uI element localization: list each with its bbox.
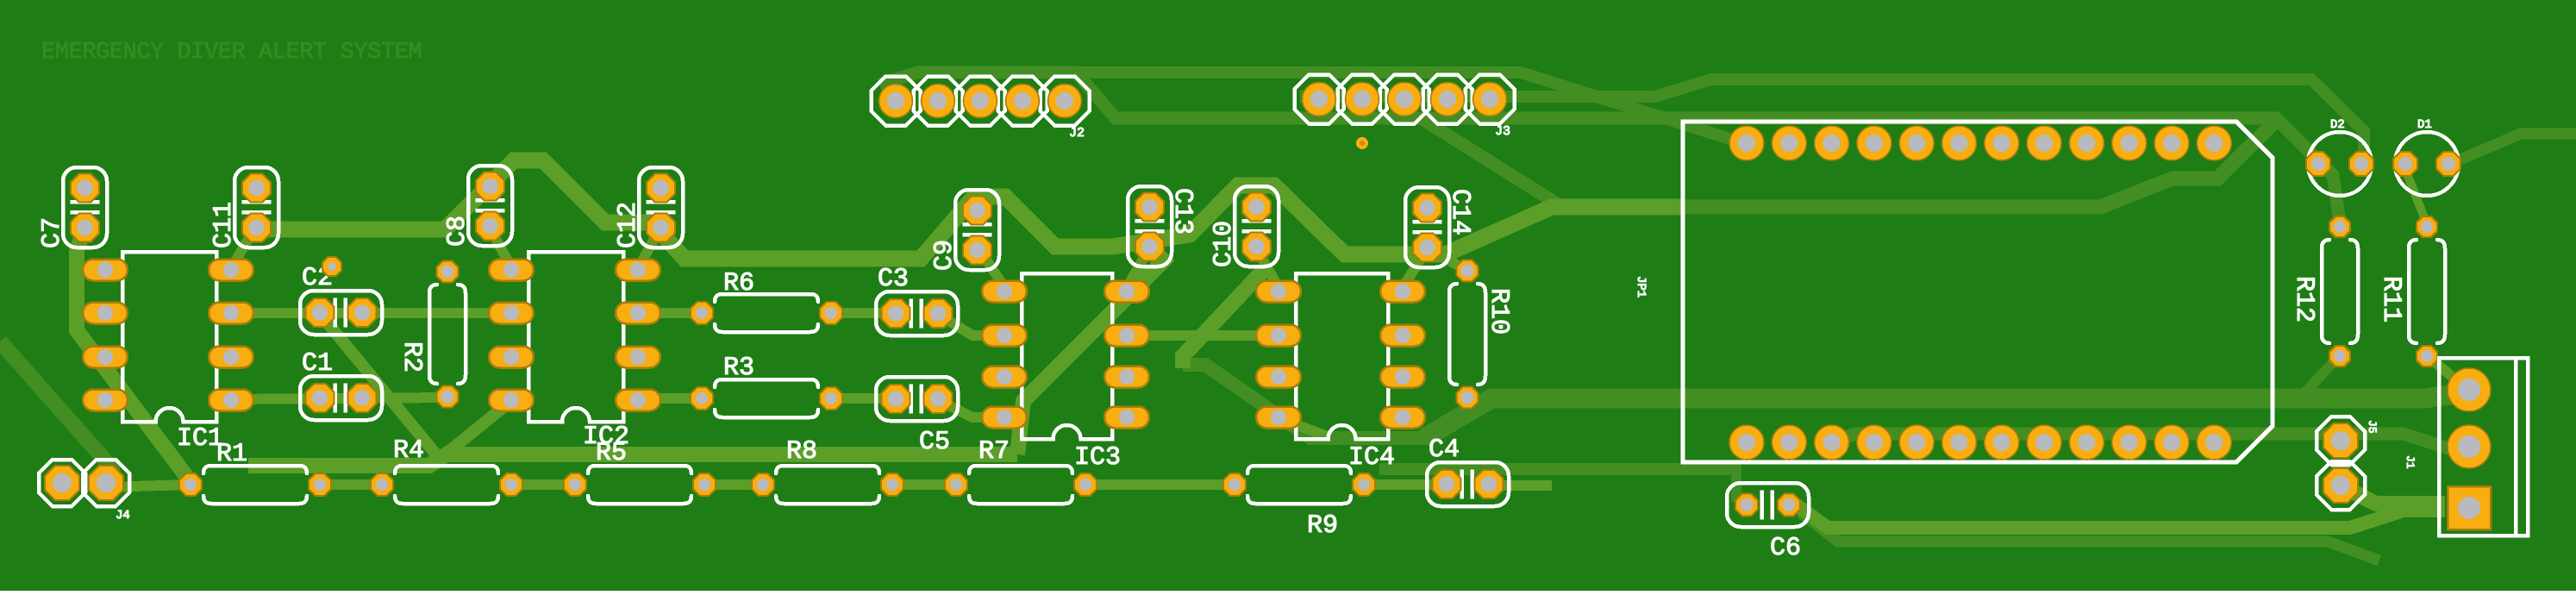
wire R8-R7	[892, 479, 956, 490]
pin 2	[2448, 425, 2491, 468]
svg-text:JP1: JP1	[1634, 276, 1648, 297]
svg-text:J1: J1	[2404, 455, 2417, 469]
pin 8	[1380, 281, 1425, 303]
pin 6	[1380, 366, 1425, 388]
wire net-B1-J1	[1831, 434, 2469, 448]
capacitor C13	[1128, 186, 1197, 266]
svg-text:C7: C7	[38, 217, 67, 248]
pin 6	[1104, 366, 1149, 388]
wire net-meander	[255, 160, 1685, 259]
pin 6	[209, 347, 253, 368]
wire IC1-C1-R2	[231, 398, 447, 399]
pin 5	[1104, 407, 1149, 429]
wire C14-IC4	[1404, 248, 1428, 285]
pin 1	[489, 260, 534, 281]
JP1 pin top 2	[1772, 126, 1806, 160]
resistor R12	[2289, 216, 2358, 366]
wire J5-J1	[2341, 485, 2445, 504]
pin 8	[616, 260, 660, 281]
wire net-C2-L1	[321, 315, 440, 459]
pin 1	[879, 85, 913, 118]
op-amp IC2 (DIP-8)	[489, 252, 660, 452]
svg-text:R8: R8	[786, 437, 817, 467]
pin 3	[1388, 83, 1422, 116]
wire R4-R5	[511, 479, 575, 490]
JP1 pin top 8	[2027, 126, 2061, 160]
pin 3	[1256, 366, 1301, 388]
pin 1	[83, 260, 128, 281]
wire R10-C14	[1433, 251, 1467, 271]
svg-text:C9: C9	[930, 240, 960, 271]
svg-text:R4: R4	[393, 436, 424, 466]
svg-text:C3: C3	[878, 265, 909, 294]
svg-text:C14: C14	[1445, 189, 1474, 235]
pin 7	[1380, 325, 1425, 347]
capacitor C5	[876, 377, 958, 457]
wire J4-R1	[105, 485, 191, 487]
wire C5-IC3	[936, 399, 1003, 417]
JP1 pin bottom 10	[2112, 425, 2147, 460]
JP1 pin bottom 7	[1985, 425, 2019, 460]
pin 2	[922, 85, 955, 118]
via	[1356, 137, 1368, 149]
wire R9-C4	[1364, 479, 1447, 490]
wire C13-IC3	[1129, 248, 1149, 285]
pin 1	[982, 281, 1027, 303]
wire R6-C3	[831, 308, 893, 318]
svg-text:C1: C1	[302, 349, 333, 379]
svg-text:IC4: IC4	[1348, 443, 1395, 473]
pin 2	[1256, 325, 1301, 347]
connector J1	[2404, 358, 2528, 535]
wire IC2-R3	[638, 393, 702, 404]
JP1 pin top 1	[1729, 126, 1764, 160]
wire R5-R8	[704, 479, 763, 490]
resistor R11	[2376, 216, 2445, 366]
capacitor C12	[614, 167, 683, 248]
resistor R7	[945, 437, 1097, 504]
pin 7	[1104, 325, 1149, 347]
wire net-J2-J3-R12	[879, 72, 2340, 222]
svg-text:IC1: IC1	[177, 424, 223, 454]
svg-text:EMERGENCY DIVER ALERT SYSTEM: EMERGENCY DIVER ALERT SYSTEM	[41, 40, 422, 66]
connector J4	[39, 460, 130, 523]
wire net-L1	[248, 454, 1017, 466]
resistor R1	[179, 440, 331, 504]
svg-text:C12: C12	[614, 202, 643, 248]
svg-text:C4: C4	[1429, 435, 1460, 465]
svg-text:IC2: IC2	[583, 423, 629, 452]
svg-text:C13: C13	[1167, 188, 1197, 235]
svg-text:J2: J2	[1069, 126, 1085, 141]
wire net-meander-inner	[1683, 121, 2276, 207]
svg-text:R6: R6	[723, 269, 754, 298]
wire net-R12-B0	[2303, 355, 2340, 395]
pin 8	[1104, 281, 1149, 303]
wire IC4-B0-stub	[1281, 419, 1328, 436]
JP1 pin top 11	[2154, 126, 2189, 160]
pin 2	[83, 303, 128, 324]
JP1 pin top 3	[1815, 126, 1849, 160]
svg-text:R11: R11	[2376, 276, 2405, 323]
pin 2	[489, 303, 534, 324]
wire net-L1-IC2	[440, 400, 512, 459]
pin 6	[616, 347, 660, 368]
connector J5	[2317, 416, 2379, 510]
pin 5	[209, 390, 253, 411]
wire C8-IC2	[490, 228, 510, 266]
pin 2	[982, 325, 1027, 347]
wire R11-D1	[2405, 169, 2427, 224]
resistor R9	[1223, 466, 1375, 541]
svg-text:C11: C11	[209, 202, 239, 248]
module JP1	[1634, 122, 2273, 462]
wire net-B0-J1	[1424, 392, 2469, 438]
pin 3	[982, 366, 1027, 388]
JP1 pin top 4	[1857, 126, 1891, 160]
pin 8	[209, 260, 253, 281]
resistor R2	[397, 261, 466, 408]
wire net-IC4-row	[1183, 365, 1431, 438]
capacitor C1	[300, 349, 382, 420]
svg-text:C10: C10	[1210, 221, 1239, 267]
wire net-B3b	[1800, 512, 2379, 561]
wire net-D1-edge	[2450, 134, 2576, 164]
pin 3	[964, 85, 997, 118]
wire net-J2-JP1pin1	[917, 72, 1743, 143]
pin 3	[489, 347, 534, 368]
JP1 pin bottom 6	[1942, 425, 1977, 460]
svg-text:D2: D2	[2330, 118, 2345, 132]
svg-text:C5: C5	[919, 428, 950, 457]
node pad near C2	[322, 257, 341, 276]
wire C12-IC2	[640, 228, 660, 266]
svg-text:IC3: IC3	[1074, 443, 1121, 473]
resistor R6	[691, 269, 842, 332]
wire IC2-R6	[638, 308, 702, 318]
capacitor C11	[209, 167, 278, 248]
op-amp IC1 (DIP-8)	[83, 252, 253, 454]
wire C9-IC3	[977, 246, 1003, 285]
svg-text:D1: D1	[2417, 118, 2432, 132]
pin 3	[83, 347, 128, 368]
pin 1	[1303, 83, 1336, 116]
svg-text:C6: C6	[1770, 534, 1801, 563]
svg-text:R3: R3	[723, 354, 754, 383]
wire R1-R4	[320, 479, 382, 490]
wire net-C7-R1	[77, 229, 191, 483]
JP1 pin bottom 9	[2069, 425, 2104, 460]
svg-text:J5: J5	[2366, 420, 2379, 434]
pin 2	[1346, 83, 1379, 116]
diode D1	[2393, 118, 2460, 196]
svg-text:J4: J4	[116, 509, 130, 523]
connector J2	[872, 77, 1090, 141]
wire R11-J1	[2427, 355, 2467, 390]
JP1 pin bottom 5	[1899, 425, 1934, 460]
pin 4	[83, 390, 128, 411]
pin 1	[1256, 281, 1301, 303]
JP1 pin top 9	[2069, 126, 2104, 160]
wire IC1-C2-IC2	[231, 308, 511, 318]
resistor R8	[752, 437, 903, 504]
svg-text:R9: R9	[1307, 511, 1338, 541]
wire C11-IC1	[234, 228, 255, 264]
capacitor C14	[1405, 187, 1474, 267]
JP1 pin bottom 12	[2197, 425, 2231, 460]
pin 4	[1431, 83, 1465, 116]
wire net-IC4-B0	[1183, 271, 1263, 368]
diode D2	[2306, 118, 2373, 196]
pin 4	[1006, 85, 1040, 118]
pin 5	[1048, 85, 1082, 118]
JP1 pin top 12	[2197, 126, 2231, 160]
JP1 pin bottom 8	[2027, 425, 2061, 460]
wire net-C13-L1	[1017, 255, 1169, 454]
wire net-J3-drop	[1421, 118, 1562, 207]
pin 5	[1473, 83, 1507, 116]
JP1 pin bottom 4	[1857, 425, 1891, 460]
capacitor C7	[38, 167, 107, 248]
JP1 pin top 6	[1942, 126, 1977, 160]
pin 4	[1256, 407, 1301, 429]
capacitor C3	[876, 265, 958, 335]
JP1 pin top 7	[1985, 126, 2019, 160]
wire R7-R9	[1085, 479, 1235, 490]
connector J3	[1295, 75, 1515, 140]
wire net-edge-J4	[0, 341, 112, 482]
resistor R3	[691, 354, 842, 417]
JP1 pin bottom 2	[1772, 425, 1806, 460]
wire R3-C5	[831, 393, 893, 404]
svg-text:J3: J3	[1495, 124, 1510, 139]
pin 7	[616, 303, 660, 324]
svg-text:R10: R10	[1484, 288, 1513, 335]
resistor R4	[371, 436, 522, 504]
wire net-L2	[1379, 463, 1735, 475]
capacitor C4	[1427, 435, 1509, 506]
svg-text:R2: R2	[397, 341, 426, 373]
op-amp IC3 (DIP-8)	[982, 273, 1149, 473]
capacitor C9	[930, 190, 999, 271]
JP1 pin bottom 3	[1815, 425, 1849, 460]
capacitor C10	[1210, 186, 1279, 267]
op-amp IC4 (DIP-8)	[1256, 273, 1425, 473]
resistor R10	[1449, 260, 1513, 409]
wire net-C6-J1	[1790, 500, 2445, 528]
wire C3-IC3	[936, 313, 1003, 335]
wire IC3-IC4	[1127, 330, 1279, 341]
wire C4-out	[1488, 480, 1552, 491]
wire stub-C6	[1731, 461, 1741, 503]
JP1 pin top 5	[1899, 126, 1934, 160]
pin 5	[616, 390, 660, 411]
resistor R5	[564, 439, 716, 504]
svg-text:R7: R7	[979, 437, 1010, 467]
wire C10-IC4	[1256, 248, 1277, 285]
pin 1	[2448, 368, 2491, 411]
svg-text:C8: C8	[443, 216, 472, 247]
pin 4	[982, 407, 1027, 429]
capacitor C8	[443, 166, 512, 247]
capacitor C6	[1727, 483, 1809, 563]
pin 3	[2448, 486, 2491, 529]
JP1 pin bottom 1	[1729, 425, 1764, 460]
svg-text:R12: R12	[2289, 276, 2318, 323]
wire net-J3-D2	[1300, 79, 2364, 160]
pin 5	[1380, 407, 1425, 429]
pin 4	[489, 390, 534, 411]
JP1 pin bottom 11	[2154, 425, 2189, 460]
pin 7	[209, 303, 253, 324]
JP1 pin top 10	[2112, 126, 2147, 160]
capacitor C2	[300, 264, 382, 335]
